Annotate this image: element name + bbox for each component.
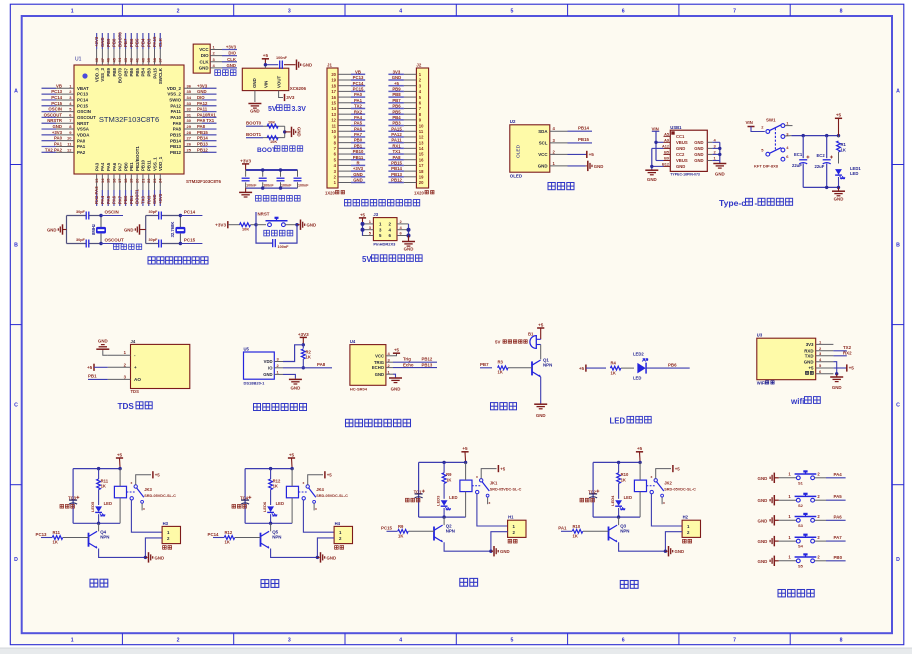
OLED pin 4 (SDA) bbox=[550, 130, 568, 132]
MCU left pin 7 (NRST) bbox=[42, 122, 75, 124]
wire bbox=[785, 125, 793, 127]
svg-text:PB5: PB5 bbox=[392, 109, 401, 114]
header J2 body bbox=[416, 68, 428, 188]
header J2 pin 1 bbox=[404, 73, 417, 75]
header J2 pin 13 bbox=[404, 142, 417, 144]
svg-text:GND: GND bbox=[594, 164, 604, 169]
wire emitter to ground rail bbox=[99, 549, 146, 558]
wire right rail bbox=[719, 142, 721, 163]
wire bbox=[284, 126, 286, 137]
LED LED6 bbox=[267, 506, 274, 512]
svg-text:wifi: wifi bbox=[790, 397, 804, 406]
svg-text:NRST: NRST bbox=[77, 121, 89, 126]
svg-text:8: 8 bbox=[840, 638, 843, 644]
svg-text:+3V3: +3V3 bbox=[226, 45, 237, 50]
svg-text:PA0: PA0 bbox=[354, 92, 363, 97]
header J1 pin 18 bbox=[338, 85, 351, 87]
wire bbox=[586, 367, 606, 369]
wire bbox=[256, 224, 266, 226]
ground bbox=[248, 103, 261, 105]
svg-text:48: 48 bbox=[94, 57, 99, 62]
svg-text:1K: 1K bbox=[53, 540, 58, 545]
svg-text:34: 34 bbox=[187, 95, 192, 100]
header J2 pin 3 bbox=[404, 85, 417, 87]
wire emitter bbox=[540, 377, 542, 404]
ground bbox=[491, 550, 493, 552]
svg-text:+5: +5 bbox=[675, 466, 681, 471]
svg-text:GND: GND bbox=[152, 194, 157, 204]
svg-text:XC6206: XC6206 bbox=[290, 86, 307, 91]
header J2 pin 14 bbox=[404, 147, 417, 149]
svg-text:+5: +5 bbox=[117, 452, 123, 457]
header J1 pin 9 bbox=[338, 136, 351, 138]
svg-text:PB10: PB10 bbox=[141, 159, 146, 171]
svg-text:VSS_3: VSS_3 bbox=[100, 67, 105, 81]
svg-text:KFT DIP-8X8: KFT DIP-8X8 bbox=[754, 164, 779, 169]
ground bbox=[408, 236, 410, 242]
svg-text:10: 10 bbox=[419, 123, 424, 128]
header J2 pin 12 bbox=[404, 136, 417, 138]
svg-text:D: D bbox=[14, 557, 18, 563]
junction bbox=[302, 343, 305, 346]
USB1 body bbox=[670, 130, 707, 171]
svg-text:TX1: TX1 bbox=[393, 149, 401, 154]
svg-text:R9: R9 bbox=[398, 524, 404, 529]
LED LED3 bbox=[441, 500, 448, 506]
svg-text:GND: GND bbox=[327, 555, 337, 560]
svg-text:PB0: PB0 bbox=[123, 195, 128, 204]
MCU top pin 45 (PB8) bbox=[113, 33, 115, 65]
svg-text:TC2: TC2 bbox=[588, 489, 597, 494]
terminal H3 body bbox=[162, 526, 180, 543]
relay block H4 power +5 bbox=[288, 457, 295, 459]
header J2 pin 16 bbox=[404, 159, 417, 161]
MCU left pin 6 (OSCOUT) bbox=[42, 116, 75, 118]
svg-text:A9: A9 bbox=[664, 139, 669, 143]
svg-text:+5: +5 bbox=[394, 81, 400, 86]
svg-text:PA6: PA6 bbox=[834, 514, 843, 519]
USB1 left pin B9 (VBUS) bbox=[664, 160, 671, 162]
crystal 32.768K bbox=[179, 216, 181, 228]
svg-text:PA1: PA1 bbox=[54, 142, 63, 147]
junction bbox=[617, 461, 620, 464]
svg-text:PB1: PB1 bbox=[88, 373, 97, 378]
svg-text:VSS_2: VSS_2 bbox=[167, 92, 181, 97]
capacitor TC2 tantalum bbox=[589, 493, 597, 495]
frame column tick bbox=[455, 4, 457, 16]
MCU right pin 31 (PA10) bbox=[184, 116, 217, 118]
wire bottom rail bbox=[73, 522, 120, 524]
capacitor 30pF top bbox=[85, 212, 87, 220]
svg-text:PB13: PB13 bbox=[391, 172, 402, 177]
svg-text:39: 39 bbox=[146, 57, 151, 62]
wire to terminal bbox=[651, 494, 682, 526]
svg-text:A5: A5 bbox=[664, 133, 669, 137]
svg-text:PB8: PB8 bbox=[112, 67, 117, 76]
svg-text:LED4: LED4 bbox=[610, 495, 615, 506]
svg-text:20: 20 bbox=[419, 180, 424, 185]
svg-text:PB7: PB7 bbox=[123, 38, 128, 47]
svg-text:PB15: PB15 bbox=[197, 130, 208, 135]
USB1 left pin B12 (GND) bbox=[664, 165, 671, 167]
svg-text:R11: R11 bbox=[53, 530, 61, 535]
svg-text:TC3: TC3 bbox=[68, 496, 77, 501]
ground bbox=[317, 556, 319, 558]
svg-text:DS18B20-1: DS18B20-1 bbox=[244, 381, 266, 386]
wire bbox=[362, 224, 364, 236]
svg-text:RX2: RX2 bbox=[843, 350, 852, 355]
svg-text:5: 5 bbox=[511, 638, 514, 644]
svg-text:10K: 10K bbox=[242, 227, 249, 232]
svg-text:PC15: PC15 bbox=[184, 237, 196, 242]
svg-text:VBUS: VBUS bbox=[676, 140, 688, 145]
svg-text:32.768K: 32.768K bbox=[170, 222, 175, 238]
svg-text:VDD: VDD bbox=[264, 359, 273, 364]
svg-text:GND: GND bbox=[52, 124, 62, 129]
svg-text:PB7: PB7 bbox=[392, 98, 401, 103]
svg-text:GND: GND bbox=[307, 223, 317, 228]
svg-text:+5: +5 bbox=[394, 348, 400, 353]
svg-text:PA4: PA4 bbox=[834, 472, 843, 477]
svg-text:GND: GND bbox=[675, 549, 685, 554]
svg-text:GND: GND bbox=[375, 372, 384, 377]
MCU left pin 11 (PA1) bbox=[42, 146, 75, 148]
wire terminal pin2 bbox=[665, 532, 682, 552]
svg-text:VBAT: VBAT bbox=[77, 86, 89, 91]
svg-text:RX2: RX2 bbox=[354, 109, 363, 114]
resistor R2 1K bbox=[302, 345, 304, 349]
svg-text:DIO: DIO bbox=[197, 95, 205, 100]
wire bbox=[408, 224, 410, 239]
svg-text:x: x bbox=[651, 475, 653, 479]
MCU top pin 48 (VDD_3) bbox=[96, 33, 98, 65]
USB1 left pin A9 (VBUS) bbox=[664, 141, 671, 143]
svg-text:PB6: PB6 bbox=[129, 38, 134, 47]
svg-text:100nF: 100nF bbox=[246, 184, 257, 188]
relay JK3 coil bbox=[114, 486, 126, 498]
transistor Q3 NPN bbox=[608, 527, 610, 541]
relay JK2 coil bbox=[634, 480, 646, 492]
push button S2 bbox=[796, 498, 800, 502]
DS18B20 pin 2 (IO) bbox=[274, 367, 283, 369]
svg-text:3.3V: 3.3V bbox=[292, 106, 307, 113]
svg-text:RX1: RX1 bbox=[392, 143, 401, 148]
svg-text:PB8: PB8 bbox=[112, 38, 117, 47]
svg-text:PB11: PB11 bbox=[353, 155, 364, 160]
MCU left pin 3 (PC14) bbox=[42, 99, 75, 101]
header J1 pin 10 bbox=[338, 130, 351, 132]
MCU bottom pin 24 (VDD_1) bbox=[159, 174, 161, 206]
push button S3 bbox=[796, 518, 800, 522]
svg-text:CC1: CC1 bbox=[676, 134, 685, 139]
svg-text:PA7: PA7 bbox=[834, 535, 843, 540]
svg-text:PA15: PA15 bbox=[391, 126, 402, 131]
MCU top pin 41 (PB5) bbox=[136, 33, 138, 65]
wire terminal pin2 bbox=[317, 538, 334, 558]
svg-text:NPN: NPN bbox=[100, 535, 109, 540]
junction bbox=[407, 228, 411, 232]
svg-text:PA5: PA5 bbox=[106, 195, 111, 204]
svg-text:PC14: PC14 bbox=[51, 95, 62, 100]
svg-text:GND: GND bbox=[694, 158, 703, 163]
junction bbox=[97, 522, 100, 525]
power +3V3 bbox=[242, 163, 249, 165]
svg-text:VDDA: VDDA bbox=[77, 132, 90, 137]
HC-SR04 pin 1 (GND) bbox=[386, 373, 393, 375]
svg-text:LED3: LED3 bbox=[436, 495, 441, 506]
header J2 pin 6 bbox=[404, 102, 417, 104]
svg-text:PB0: PB0 bbox=[354, 138, 363, 143]
svg-text:PA9: PA9 bbox=[173, 121, 182, 126]
svg-text:PA15: PA15 bbox=[152, 67, 157, 78]
svg-text:46: 46 bbox=[106, 57, 111, 62]
svg-text:3V3: 3V3 bbox=[393, 69, 401, 74]
wire bbox=[283, 345, 303, 362]
svg-text:H2: H2 bbox=[683, 515, 689, 520]
MCU bottom pin 22 (PB11) bbox=[148, 174, 150, 206]
svg-text:GND: GND bbox=[758, 539, 768, 544]
net OSCOUT bbox=[101, 243, 123, 245]
header J2 pin 2 bbox=[404, 79, 417, 81]
header J2 pin 18 bbox=[404, 170, 417, 172]
svg-text:+5: +5 bbox=[637, 446, 643, 451]
svg-text:NPN: NPN bbox=[543, 363, 552, 368]
power +5 contact bbox=[308, 475, 323, 485]
svg-text:PA9 TX1: PA9 TX1 bbox=[197, 118, 215, 123]
svg-text:18: 18 bbox=[419, 169, 424, 174]
svg-text:OSCIN: OSCIN bbox=[77, 109, 91, 114]
svg-text:TX3: TX3 bbox=[141, 196, 146, 204]
capacitor 100nF bbox=[279, 61, 281, 69]
power +3V3 bbox=[300, 336, 307, 338]
frame column tick bbox=[567, 4, 569, 16]
svg-text:PC14: PC14 bbox=[77, 98, 89, 103]
svg-text:23: 23 bbox=[152, 178, 157, 183]
svg-text:SWCLK: SWCLK bbox=[158, 67, 163, 84]
header J4 pin 2 bbox=[108, 366, 131, 368]
DS18B20 pin 1 (GND) bbox=[274, 373, 283, 375]
svg-text:B: B bbox=[14, 243, 18, 249]
svg-text:GND: GND bbox=[297, 127, 302, 137]
svg-text:GND: GND bbox=[263, 372, 272, 377]
svg-text:PB13: PB13 bbox=[422, 362, 433, 367]
svg-text:CLK: CLK bbox=[199, 59, 209, 64]
svg-text:PB4: PB4 bbox=[392, 115, 401, 120]
OLED pin 1 (GND) bbox=[550, 165, 568, 167]
wire left branch bbox=[72, 469, 74, 524]
svg-text:DIO: DIO bbox=[201, 53, 209, 58]
svg-text:GND: GND bbox=[291, 386, 301, 391]
svg-text:45: 45 bbox=[111, 57, 116, 62]
svg-text:PA6: PA6 bbox=[112, 162, 117, 171]
regulator GND pin wire bbox=[254, 91, 256, 102]
MCU right pin 35 (VSS_2) bbox=[184, 93, 217, 95]
svg-text:BOOT0: BOOT0 bbox=[117, 32, 122, 47]
svg-text:GND: GND bbox=[155, 555, 165, 560]
wifi U3 pin 4 bbox=[816, 361, 834, 363]
header J4 pin 1 bbox=[108, 354, 131, 356]
header J1 body bbox=[327, 68, 338, 188]
svg-text:CLK: CLK bbox=[158, 37, 163, 47]
svg-text:PB9: PB9 bbox=[106, 67, 111, 76]
wire collector bbox=[98, 523, 100, 531]
caption danpianji zuixiaoxitong bbox=[148, 257, 208, 264]
svg-text:TYPEC-16PIN-073: TYPEC-16PIN-073 bbox=[670, 172, 700, 176]
header J4 pin 3 bbox=[108, 378, 131, 380]
wire collector bbox=[270, 523, 272, 531]
regulator VOUT wire bbox=[279, 91, 283, 98]
svg-text:38: 38 bbox=[152, 57, 157, 62]
HC-SR04 pin 4 (VCC) bbox=[386, 355, 393, 357]
junction bbox=[97, 467, 100, 470]
MCU right pin 26 (PB13) bbox=[184, 146, 217, 148]
svg-text:PB6: PB6 bbox=[392, 104, 401, 109]
caption jinshui bbox=[620, 581, 638, 589]
svg-text:VDD_2: VDD_2 bbox=[167, 86, 182, 91]
svg-text:H1: H1 bbox=[508, 515, 514, 520]
svg-text:GND: GND bbox=[758, 518, 768, 523]
header J1 pin 13 bbox=[338, 113, 351, 115]
svg-text:PB6: PB6 bbox=[668, 362, 677, 367]
svg-text:S2: S2 bbox=[798, 503, 804, 508]
push button S1 bbox=[796, 476, 800, 480]
header J3 right pin 2 bbox=[397, 223, 409, 225]
svg-text:BOOT1: BOOT1 bbox=[246, 132, 262, 137]
svg-text:NRSTR: NRSTR bbox=[47, 118, 63, 123]
key S4 wire bbox=[779, 540, 797, 542]
svg-text:26: 26 bbox=[187, 142, 192, 147]
svg-text:30pF: 30pF bbox=[76, 210, 86, 214]
svg-text:VSS_1: VSS_1 bbox=[152, 157, 157, 171]
svg-text:PB8: PB8 bbox=[392, 92, 401, 97]
svg-text:+3V3: +3V3 bbox=[240, 158, 251, 163]
junction bbox=[489, 550, 492, 553]
svg-text:14: 14 bbox=[331, 106, 336, 111]
capacitor EC2 22uF bbox=[826, 136, 828, 159]
relay dashed link bbox=[472, 485, 482, 487]
svg-text:PC13: PC13 bbox=[353, 75, 364, 80]
svg-text:GND: GND bbox=[694, 140, 703, 145]
svg-text:30pF: 30pF bbox=[149, 238, 159, 242]
svg-text:12: 12 bbox=[419, 135, 424, 140]
svg-text:VOUT: VOUT bbox=[276, 75, 281, 88]
MCU top pin 47 (VSS_3) bbox=[101, 33, 103, 65]
caption chongyang bbox=[261, 580, 279, 588]
DS18B20 U5 body bbox=[244, 352, 275, 379]
svg-text:VSSA: VSSA bbox=[77, 127, 90, 132]
relay block H1 power +5 bbox=[461, 451, 468, 453]
wire bbox=[540, 345, 542, 360]
svg-text:LED: LED bbox=[276, 501, 284, 506]
svg-text:EC2: EC2 bbox=[817, 153, 826, 158]
svg-text:PA12: PA12 bbox=[391, 132, 402, 137]
svg-text:18: 18 bbox=[331, 83, 336, 88]
svg-text:10K: 10K bbox=[268, 119, 275, 124]
svg-text:LED: LED bbox=[449, 495, 457, 500]
DS18B20 pin 3 (VDD) bbox=[274, 361, 283, 363]
svg-text:JK3: JK3 bbox=[144, 487, 152, 492]
svg-text:PB1: PB1 bbox=[129, 162, 134, 171]
MCU left pin 5 (OSCIN) bbox=[42, 111, 75, 113]
svg-text:15: 15 bbox=[419, 152, 424, 157]
junction bbox=[664, 550, 667, 553]
svg-text:5V: 5V bbox=[268, 106, 277, 113]
svg-text:SW1: SW1 bbox=[766, 118, 776, 123]
svg-text:x: x bbox=[663, 501, 665, 505]
svg-text:+3V3: +3V3 bbox=[353, 166, 364, 171]
key S1 wire bbox=[779, 477, 797, 479]
download port connector body bbox=[193, 44, 210, 73]
svg-text:PA1: PA1 bbox=[558, 526, 567, 531]
svg-text:VBUS: VBUS bbox=[676, 158, 688, 163]
junction bbox=[302, 366, 305, 369]
svg-text:LED6: LED6 bbox=[262, 501, 267, 512]
svg-text:32: 32 bbox=[187, 107, 192, 112]
svg-text:16: 16 bbox=[419, 157, 424, 162]
wire bottom rail bbox=[803, 186, 838, 188]
svg-text:PC14: PC14 bbox=[208, 532, 220, 537]
svg-text:GND: GND bbox=[676, 164, 685, 169]
svg-text:U4: U4 bbox=[350, 339, 356, 344]
power 3V3 bbox=[284, 94, 286, 101]
svg-text:VCC: VCC bbox=[199, 47, 209, 52]
wire terminal pin2 bbox=[491, 532, 508, 552]
wifi U3 pin 1 bbox=[816, 343, 834, 345]
svg-text:8: 8 bbox=[840, 8, 843, 14]
svg-text:EC1: EC1 bbox=[794, 152, 803, 157]
header J3 right pin 4 bbox=[397, 229, 409, 231]
svg-text:1K: 1K bbox=[498, 370, 503, 375]
svg-text:SCL: SCL bbox=[539, 141, 548, 146]
junction bbox=[442, 515, 445, 518]
relay JK4 coil bbox=[286, 486, 298, 498]
junction bbox=[269, 522, 272, 525]
caption danpianji yinjiao waiyin paizhen bbox=[345, 200, 420, 206]
svg-text:15: 15 bbox=[106, 178, 111, 183]
svg-text:PA3: PA3 bbox=[94, 162, 99, 171]
svg-text:5: 5 bbox=[511, 8, 514, 14]
svg-text:PB3: PB3 bbox=[146, 38, 151, 47]
net PC14 bbox=[180, 215, 202, 217]
terminal H2 body bbox=[682, 520, 700, 537]
svg-text:PA10: PA10 bbox=[170, 115, 181, 120]
svg-text:AO: AO bbox=[134, 377, 141, 382]
svg-text:IO: IO bbox=[268, 365, 273, 370]
ground bbox=[283, 374, 295, 378]
MCU bottom pin 17 (PA7) bbox=[119, 174, 121, 206]
svg-text:13: 13 bbox=[94, 178, 99, 183]
svg-text:PA11: PA11 bbox=[391, 138, 402, 143]
svg-text:PB14: PB14 bbox=[391, 166, 402, 171]
relay block H2 power +5 bbox=[636, 451, 643, 453]
svg-text:1K: 1K bbox=[273, 484, 278, 489]
header J1 pin 17 bbox=[338, 90, 351, 92]
svg-text:PB7: PB7 bbox=[480, 362, 489, 367]
svg-text:J3: J3 bbox=[373, 212, 378, 217]
transistor Q5 NPN bbox=[260, 533, 262, 547]
svg-text:PA5: PA5 bbox=[354, 121, 363, 126]
svg-text:TC4: TC4 bbox=[240, 496, 249, 501]
caption xinpian lvbodianrong bbox=[256, 196, 301, 202]
svg-text:x: x bbox=[489, 501, 491, 505]
MCU top pin 38 (PA15) bbox=[154, 33, 156, 65]
svg-text:GND: GND bbox=[199, 65, 209, 70]
svg-text:4: 4 bbox=[399, 8, 402, 14]
header J1 pin 8 bbox=[338, 142, 351, 144]
svg-text:17: 17 bbox=[419, 163, 424, 168]
svg-text:SWIO: SWIO bbox=[169, 98, 181, 103]
MCU right pin 28 (PB15) bbox=[184, 134, 217, 136]
